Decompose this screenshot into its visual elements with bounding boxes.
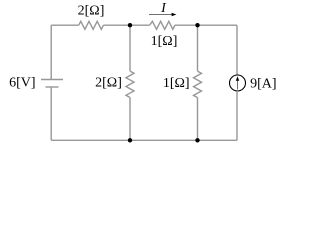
resistor R1 2[Ω] top-left zigzag (79, 21, 104, 29)
wire middle branch upper (129, 25, 131, 71)
resistor R3 2[Ω] vertical zigzag (126, 71, 134, 97)
wire left lower (50, 87, 52, 140)
node top-second junction dot (195, 23, 199, 27)
svg-text:2[Ω]: 2[Ω] (95, 76, 122, 91)
resistor R4 1[Ω] vertical zigzag (194, 71, 202, 98)
svg-text:9[A]: 9[A] (250, 76, 276, 91)
wire bottom (51, 139, 237, 141)
battery V1 6[V] long plate (41, 79, 63, 81)
node top-middle junction dot (128, 23, 132, 27)
wire middle branch lower (129, 98, 131, 141)
node bottom-middle junction dot (128, 138, 132, 142)
current arrow I (149, 14, 173, 16)
wire top-right segment (175, 24, 237, 26)
resistor R2 1[Ω] top zigzag (150, 21, 175, 29)
current source U1 9[A] circle (230, 75, 246, 91)
wire left upper (50, 25, 52, 79)
wire right branch upper (236, 25, 238, 75)
battery V1 6[V] short plate (46, 86, 59, 88)
node bottom-second junction dot (195, 138, 199, 142)
wire second branch upper (197, 25, 199, 71)
current source U1 arrow (237, 81, 239, 90)
wire top-left segment (51, 24, 78, 26)
svg-text:1[Ω]: 1[Ω] (163, 76, 190, 91)
svg-text:6[V]: 6[V] (9, 75, 35, 90)
svg-text:2[Ω]: 2[Ω] (78, 3, 105, 18)
wire top-middle segment (103, 24, 149, 26)
wire second branch lower (197, 98, 199, 141)
wire right branch lower (236, 91, 238, 140)
svg-text:1[Ω]: 1[Ω] (151, 34, 178, 49)
